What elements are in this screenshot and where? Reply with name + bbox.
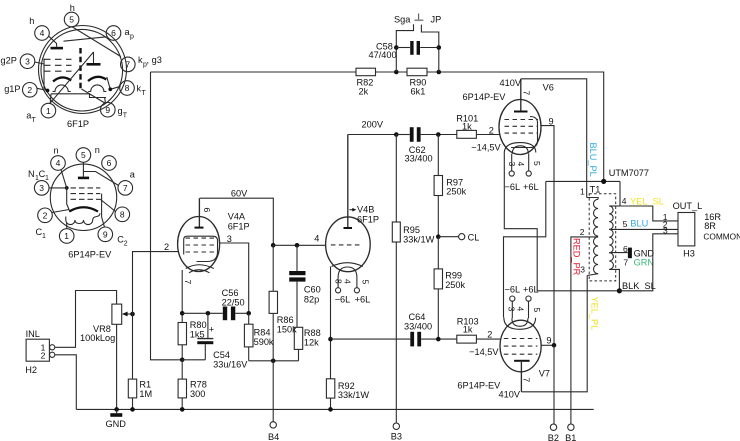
svg-text:1: 1	[45, 175, 49, 182]
svg-text:g1P: g1P	[4, 84, 20, 94]
pin 3	[1, 54, 35, 69]
svg-text:T: T	[32, 117, 37, 124]
svg-text:200V: 200V	[362, 120, 384, 130]
svg-text:BLU: BLU	[630, 218, 648, 228]
wire V6 anode to T1 pin1	[521, 79, 587, 198]
transformer T1 secondary winding	[609, 196, 678, 291]
svg-text:8: 8	[334, 279, 344, 284]
svg-text:1: 1	[580, 186, 585, 196]
svg-text:OUT_L: OUT_L	[673, 201, 703, 211]
svg-text:4: 4	[622, 196, 627, 206]
resistor R78	[178, 360, 207, 410]
wire V4B cathode	[330, 267, 332, 379]
svg-text:410V: 410V	[500, 78, 522, 88]
resistor R86	[269, 245, 297, 360]
terminal B1	[565, 424, 576, 441]
node cathode	[180, 311, 185, 316]
svg-text:4: 4	[516, 162, 526, 167]
wire screens to B2	[553, 345, 555, 424]
resistor R101	[456, 113, 501, 152]
pin 5	[76, 145, 100, 162]
svg-text:T: T	[142, 90, 147, 97]
6P14P internal heater	[66, 213, 100, 224]
svg-text:33k/1W: 33k/1W	[338, 390, 369, 400]
node B4 branch	[271, 359, 276, 364]
wire C58 branch right	[421, 25, 438, 72]
pin 9	[98, 227, 128, 248]
wire INL pin2 to ground rail	[55, 355, 77, 410]
ground GND	[106, 409, 127, 429]
heater stubs V6	[505, 154, 543, 192]
svg-text:60V: 60V	[231, 189, 248, 199]
svg-text:9: 9	[546, 336, 551, 346]
svg-text:2: 2	[124, 241, 128, 248]
6F1P internal pentode anode bar	[51, 47, 64, 50]
capacitor C60	[289, 245, 321, 327]
resistor R92	[326, 379, 369, 410]
svg-text:2: 2	[43, 211, 48, 221]
wire V6 cathode to BLK_SL	[504, 154, 619, 291]
6P14P internal connection wires	[49, 170, 115, 229]
transformer T1 primary winding	[580, 186, 598, 275]
svg-text:6P14P-EV: 6P14P-EV	[457, 381, 501, 391]
pin 3	[28, 169, 49, 195]
svg-text:1: 1	[64, 231, 69, 241]
node VR8 wiper	[130, 312, 135, 317]
node cathode left	[46, 89, 50, 93]
svg-text:33k/1W: 33k/1W	[403, 234, 434, 244]
capacitor C58	[369, 41, 439, 60]
wire BLK_SL to OUT pin3	[619, 234, 678, 291]
node R78 rail	[180, 407, 185, 412]
node C64/R103	[436, 337, 441, 342]
svg-text:RED_PR: RED_PR	[571, 238, 581, 276]
connector H2 INL	[25, 329, 55, 375]
node	[130, 407, 135, 412]
svg-text:4: 4	[516, 307, 526, 312]
svg-text:33/400: 33/400	[404, 321, 432, 331]
resistor R90	[407, 68, 427, 96]
pin 6	[102, 156, 117, 171]
resistor R97	[434, 135, 467, 237]
svg-text:5: 5	[623, 219, 628, 229]
6P14P internal grid dashes	[71, 188, 101, 199]
svg-text:V4A: V4A	[228, 212, 246, 222]
svg-text:300: 300	[190, 389, 205, 399]
ground rail	[76, 408, 593, 410]
svg-text:H2: H2	[25, 365, 37, 375]
svg-text:4: 4	[56, 158, 61, 168]
pin 1	[26, 103, 56, 124]
svg-text:250k: 250k	[446, 186, 466, 196]
capacitor C54	[182, 313, 248, 369]
svg-text:7: 7	[125, 60, 130, 70]
svg-text:COMMON: COMMON	[703, 231, 740, 241]
svg-text:B1: B1	[565, 433, 576, 441]
svg-text:33u/16V: 33u/16V	[213, 360, 248, 370]
svg-text:BLK_SL: BLK_SL	[622, 281, 656, 291]
svg-text:BLU_PL: BLU_PL	[588, 143, 598, 177]
svg-text:250k: 250k	[445, 280, 465, 290]
6F1P internal cathode arcs	[53, 77, 106, 82]
potentiometer VR8	[80, 304, 133, 409]
pin 2	[36, 208, 53, 240]
pin 7	[118, 169, 136, 195]
svg-text:n: n	[54, 146, 59, 156]
svg-text:−6L: −6L	[505, 182, 521, 192]
node C54 top	[206, 311, 211, 316]
svg-text:6: 6	[111, 28, 116, 38]
node	[114, 407, 119, 412]
svg-text:6k1: 6k1	[411, 87, 426, 97]
svg-text:1: 1	[46, 106, 51, 116]
node NFB/tap4	[601, 179, 606, 184]
tube V6 6P14P-EV	[463, 78, 554, 155]
svg-text:T1: T1	[590, 185, 601, 195]
svg-text:1M: 1M	[139, 389, 152, 399]
svg-text:+6L: +6L	[355, 295, 371, 305]
svg-text:R99: R99	[445, 270, 462, 280]
svg-text:, g3: , g3	[147, 55, 162, 65]
svg-text:N: N	[28, 169, 35, 179]
wire wiper to V4A grid	[133, 252, 179, 314]
svg-text:n: n	[95, 145, 100, 155]
svg-text:g2P: g2P	[1, 56, 17, 66]
svg-text:V7: V7	[539, 369, 550, 379]
svg-text:3: 3	[25, 56, 30, 66]
svg-text:R88: R88	[304, 328, 321, 338]
svg-text:−14,5V: −14,5V	[471, 142, 501, 152]
svg-text:R95: R95	[403, 225, 420, 235]
wire V4B anode to 200V node	[348, 134, 397, 136]
svg-text:INL: INL	[26, 329, 40, 339]
6P14P internal cathode arc	[69, 207, 98, 211]
svg-text:Sga: Sga	[394, 15, 411, 25]
node cathode/C64	[328, 337, 333, 342]
svg-text:B2: B2	[548, 433, 559, 441]
wire V6 screen pin9	[541, 126, 554, 346]
svg-text:2: 2	[27, 85, 32, 95]
svg-text:1k: 1k	[462, 122, 472, 132]
wire NFB horizontal	[546, 180, 620, 182]
svg-text:V6: V6	[543, 82, 554, 92]
svg-text:6: 6	[107, 158, 112, 168]
svg-text:a: a	[130, 169, 136, 179]
svg-text:h: h	[70, 3, 75, 13]
svg-text:6P14P-EV: 6P14P-EV	[463, 92, 507, 102]
svg-text:R1: R1	[139, 379, 151, 389]
svg-text:9: 9	[103, 230, 108, 240]
wire T1 pin2 to B1	[571, 237, 598, 424]
svg-text:7: 7	[623, 258, 628, 268]
wire 60V anode	[200, 189, 274, 246]
svg-text:82p: 82p	[304, 294, 319, 304]
node cathode right	[108, 87, 112, 91]
wire R84/R88 bottom bus	[249, 360, 299, 362]
svg-text:6F1P: 6F1P	[228, 222, 250, 232]
node	[437, 45, 442, 50]
terminal B3	[391, 423, 402, 441]
node R80 bottom	[180, 358, 185, 363]
svg-text:−6L: −6L	[505, 285, 521, 295]
wire V4A cathode	[181, 270, 183, 323]
svg-text:7: 7	[522, 91, 532, 96]
svg-text:590k: 590k	[254, 337, 274, 347]
svg-text:GND: GND	[106, 419, 127, 429]
svg-text:JP: JP	[431, 15, 442, 25]
svg-text:33/400: 33/400	[405, 154, 433, 164]
svg-text:1k5: 1k5	[190, 329, 205, 339]
tube V7 6P14P-EV (inverted)	[457, 317, 551, 399]
svg-text:3: 3	[507, 307, 517, 312]
node CL	[436, 234, 441, 239]
pin 8	[115, 207, 130, 222]
svg-text:4: 4	[343, 279, 353, 284]
svg-text:2: 2	[580, 227, 585, 237]
6F1P internal grid dashes	[44, 59, 72, 71]
svg-text:1k: 1k	[463, 325, 473, 335]
tube base 6F1P envelope	[39, 26, 127, 130]
pin 4	[29, 16, 49, 40]
svg-text:4: 4	[40, 28, 45, 38]
node R92 rail	[328, 407, 333, 412]
tube base 6P14P-EV envelope	[50, 164, 116, 259]
node screens junction	[552, 343, 557, 348]
resistor R88	[294, 327, 320, 361]
svg-text:p: p	[130, 34, 134, 41]
node BLK_SL	[617, 288, 622, 293]
svg-text:6: 6	[202, 208, 212, 213]
svg-text:YEL_PL: YEL_PL	[589, 297, 599, 331]
node grid	[65, 186, 69, 190]
wire coupling to V4B grid	[273, 244, 326, 246]
svg-text:5: 5	[69, 15, 74, 25]
ground GND secondary	[628, 248, 654, 259]
node screen/C56/R84	[246, 311, 251, 316]
wire YEL_SL to OUT pin1	[620, 206, 678, 221]
svg-text:9: 9	[549, 117, 554, 127]
resistor R80	[178, 320, 207, 360]
pin 5	[64, 3, 79, 27]
wire tap4 up to NFB node	[619, 181, 621, 206]
resistor R1	[128, 314, 152, 409]
svg-text:−6L: −6L	[335, 295, 351, 305]
terminal B2	[548, 424, 559, 441]
svg-text:−14,5V: −14,5V	[469, 347, 499, 357]
svg-text:h: h	[29, 16, 34, 26]
svg-text:5: 5	[360, 280, 370, 285]
6F1P internal centre shield dashed	[79, 48, 81, 90]
svg-text:5: 5	[81, 150, 86, 160]
svg-text:4: 4	[314, 234, 319, 244]
resistor R95 and B3 column	[392, 135, 434, 424]
capacitor C62	[396, 127, 457, 163]
heater stubs V7	[505, 285, 542, 319]
svg-text:R78: R78	[190, 379, 207, 389]
svg-text:8: 8	[120, 210, 125, 220]
wire INL pin1 to VR8 top	[55, 291, 117, 348]
svg-text:100kLog: 100kLog	[80, 333, 115, 343]
svg-text:UTM7077: UTM7077	[609, 168, 649, 178]
node R97 top	[436, 132, 441, 137]
svg-text:R84: R84	[254, 327, 271, 337]
svg-text:6F1P: 6F1P	[357, 215, 379, 225]
terminal CL	[438, 232, 479, 242]
svg-text:9: 9	[105, 105, 110, 115]
wire NFB top rail	[151, 72, 604, 360]
node anode/coupling	[271, 243, 276, 248]
svg-text:3: 3	[39, 183, 44, 193]
6P14P internal anode bar	[78, 162, 119, 185]
svg-text:1: 1	[42, 233, 46, 240]
heater stubs V4B	[334, 278, 371, 305]
tube V4B 6F1P	[314, 135, 379, 278]
svg-text:C60: C60	[304, 285, 321, 295]
node C60 branch	[295, 243, 300, 248]
resistor R82	[356, 68, 376, 96]
svg-text:2: 2	[489, 126, 494, 136]
6F1P internal heater bumps	[53, 85, 107, 92]
wire C58 branch left	[396, 24, 413, 72]
switch Sga / jumper JP	[394, 14, 441, 25]
node C58 left	[394, 70, 399, 75]
node 200V	[394, 132, 399, 137]
pin 9	[101, 102, 128, 119]
svg-text:2: 2	[41, 351, 46, 361]
wire V7 screen pin9	[541, 344, 554, 346]
svg-text:B4: B4	[268, 432, 279, 441]
svg-text:R86: R86	[277, 315, 294, 325]
svg-text:7: 7	[123, 183, 128, 193]
svg-text:T: T	[123, 113, 128, 120]
node	[394, 45, 399, 50]
resistor R103	[457, 317, 501, 358]
svg-text:12k: 12k	[304, 338, 319, 348]
svg-text:H3: H3	[683, 248, 695, 258]
svg-text:47/400: 47/400	[369, 50, 397, 60]
connector OUT_L H3	[663, 201, 740, 258]
svg-text:5: 5	[532, 161, 542, 166]
svg-text:410V: 410V	[499, 390, 521, 400]
svg-text:+6L: +6L	[523, 285, 539, 295]
svg-text:7: 7	[522, 378, 532, 383]
tube V4A 6F1P	[164, 198, 250, 284]
svg-text:2k: 2k	[359, 87, 369, 97]
terminal B4	[268, 361, 279, 441]
pin 6	[106, 26, 134, 41]
wire V4A screen pin3	[220, 243, 249, 313]
wire NFB tap to V7 cathode	[504, 181, 546, 317]
svg-text:2: 2	[164, 242, 169, 252]
node C58 right	[437, 70, 442, 75]
6F1P internal triode anode bar	[87, 52, 101, 66]
svg-text:5: 5	[532, 308, 542, 313]
svg-text:+: +	[209, 325, 214, 335]
svg-text:6: 6	[623, 244, 628, 254]
svg-text:6F1P: 6F1P	[67, 119, 89, 129]
svg-text:C54: C54	[213, 350, 230, 360]
svg-text:+6L: +6L	[523, 182, 539, 192]
6F1P internal connection wires	[35, 27, 121, 104]
pin 8	[120, 81, 147, 97]
resistor R99	[434, 237, 465, 339]
svg-text:CL: CL	[468, 232, 480, 242]
svg-text:GND: GND	[634, 248, 655, 258]
svg-text:GRN: GRN	[634, 257, 654, 267]
wire cathode bus	[182, 312, 222, 314]
svg-text:B3: B3	[391, 431, 402, 441]
pin 7	[121, 55, 162, 72]
resistor R84	[244, 313, 274, 361]
svg-text:3: 3	[663, 225, 668, 235]
svg-text:2: 2	[487, 330, 492, 340]
svg-text:YEL_SL: YEL_SL	[630, 197, 664, 207]
capacitor C56	[222, 288, 249, 320]
svg-text:7: 7	[183, 280, 193, 285]
pin 4	[51, 146, 66, 171]
svg-text:C64: C64	[409, 312, 426, 322]
wire V7 anode to T1 pin3	[521, 276, 587, 392]
transformer T1 core	[589, 168, 649, 281]
svg-text:6P14P-EV: 6P14P-EV	[68, 249, 112, 259]
pin 1	[59, 229, 74, 244]
svg-text:V4B: V4B	[357, 205, 374, 215]
svg-text:3: 3	[507, 162, 517, 167]
pin 2	[4, 83, 37, 98]
capacitor C64	[331, 312, 457, 347]
svg-text:22/50: 22/50	[222, 297, 245, 307]
svg-text:8: 8	[125, 83, 130, 93]
svg-text:8R: 8R	[704, 221, 716, 231]
